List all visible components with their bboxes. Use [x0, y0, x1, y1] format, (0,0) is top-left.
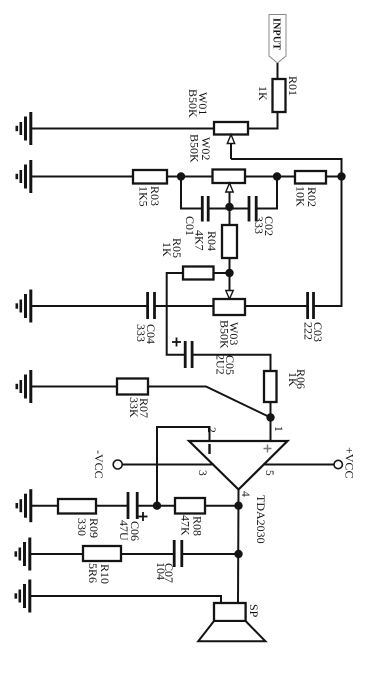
label R09 330 [75, 518, 101, 538]
potentiometer W03 [214, 291, 246, 316]
wire pin2 to feedback node [157, 427, 210, 506]
node dot R06/pin1 [266, 413, 274, 421]
svg-text:10K: 10K [294, 186, 308, 207]
wire W03 top to C03 [245, 305, 308, 307]
wire node to W02 top [245, 176, 277, 178]
plus sign C06 [139, 512, 148, 521]
wire C04 to ground [32, 305, 148, 307]
svg-text:INPUT: INPUT [271, 18, 282, 50]
capacitor C03 [308, 292, 314, 319]
svg-text:1: 1 [272, 426, 284, 432]
wire R07 bottom to ground [32, 386, 117, 388]
svg-text:B50K: B50K [218, 320, 232, 349]
ground (speaker) [16, 580, 30, 613]
INPUT terminal flag [269, 15, 286, 64]
svg-text:222: 222 [302, 322, 316, 340]
svg-text:1K: 1K [256, 86, 270, 101]
wire C05 top to R06 [192, 355, 270, 371]
label R06 1K [286, 369, 308, 389]
wire W02 to R03 [167, 176, 181, 178]
node dot R02/C02/W02 [273, 172, 281, 180]
resistor R01 [273, 79, 286, 112]
svg-text:R01: R01 [286, 76, 300, 96]
svg-text:1K: 1K [160, 242, 174, 257]
wire W01 wiper to top rail [231, 159, 342, 306]
wire flag to R01 [277, 63, 279, 79]
ground (R03) [17, 160, 31, 193]
ground (R09) [17, 489, 31, 522]
svg-text:1K: 1K [286, 372, 300, 387]
svg-text:330: 330 [75, 518, 89, 536]
svg-text:1K5: 1K5 [137, 186, 151, 207]
label C05 2U2 [214, 354, 238, 375]
label R03 1K5 [137, 186, 163, 207]
wire C06 to R09 [96, 505, 128, 507]
label C06 47U [117, 520, 142, 541]
svg-text:3: 3 [196, 470, 208, 476]
plus sign C05 [172, 338, 181, 347]
node dot wiper/R04 [225, 203, 233, 211]
svg-text:47U: 47U [117, 520, 131, 541]
resistor R05 [183, 267, 214, 280]
node dot feedback [153, 502, 161, 510]
svg-text:+VCC: +VCC [343, 447, 357, 478]
label R01 1K [256, 76, 300, 101]
wire R05 from node [214, 272, 230, 274]
node dot R04/R05/W03 [225, 269, 233, 277]
svg-text:SP: SP [247, 604, 261, 618]
wire R01 to W01 top [248, 112, 278, 129]
wire R09 to ground [32, 505, 58, 507]
resistor R04 [222, 225, 237, 258]
wire node to C01 bottom [181, 177, 201, 209]
resistor R06 [264, 371, 277, 402]
svg-text:B50K: B50K [186, 89, 200, 118]
pin number labels [196, 426, 284, 497]
label W01 B50K [186, 89, 210, 118]
label R08 47K [179, 515, 205, 536]
speaker SP [198, 603, 265, 641]
ground (R07) [17, 370, 31, 403]
svg-text:-VCC: -VCC [92, 450, 106, 479]
svg-text:TDA2030: TDA2030 [254, 495, 268, 544]
wire R02 to node [277, 176, 295, 178]
svg-text:333: 333 [134, 324, 148, 342]
svg-text:5R6: 5R6 [86, 563, 100, 583]
wire R04 to node [229, 258, 231, 273]
resistor R08 [175, 498, 205, 514]
label W03 B50K [218, 320, 242, 349]
op-amp U1 TDA2030 triangle [189, 441, 288, 490]
wire R05 bottom to C05 line [167, 273, 185, 355]
label C07 104 [154, 562, 176, 583]
wire W03 bottom to C04 [155, 305, 214, 307]
resistor R10 [83, 546, 121, 561]
label R02 10K [294, 186, 320, 207]
terminal +VCC [334, 460, 342, 468]
svg-text:2U2: 2U2 [214, 354, 228, 375]
wire pin3 to -VCC [122, 464, 214, 466]
label C04 333 [134, 324, 158, 344]
wire R07 top + diagonal to pin1 node [148, 387, 271, 418]
capacitor C05 polarized [185, 341, 192, 368]
svg-text:47K: 47K [179, 515, 193, 536]
output wire pin4 to speaker [237, 490, 240, 604]
capacitor C01 [202, 196, 208, 222]
W03 wiper wire [229, 273, 231, 290]
node dot W02/R03/C01 [177, 172, 185, 180]
wire output node to C07 [182, 553, 239, 555]
potentiometer W01 [214, 122, 248, 159]
resistor R09 [58, 499, 96, 514]
wire C07 to R10 [121, 553, 174, 555]
wire R08 to feedback node [157, 505, 175, 507]
svg-text:B50K: B50K [188, 134, 202, 163]
label R04 4K7 [193, 230, 220, 251]
wire rail to R02 [326, 176, 342, 178]
svg-text:4K7: 4K7 [193, 230, 207, 251]
resistor R03 [133, 170, 167, 184]
wire C02 bottom to wiper node [230, 208, 250, 210]
capacitor C07 [174, 540, 182, 567]
capacitor C02 [249, 196, 256, 222]
svg-text:104: 104 [154, 562, 168, 580]
ground (W01) [17, 112, 31, 145]
svg-text:33K: 33K [127, 397, 141, 418]
label C02 333 [252, 216, 276, 236]
wire W01 bottom to ground [32, 128, 214, 130]
node dot output/R08 [234, 502, 242, 510]
wire node to C02 top [257, 177, 277, 209]
node dot output/C07 [234, 550, 242, 558]
wire R06 to node [270, 402, 272, 441]
terminal -VCC [113, 460, 122, 469]
resistor R02 [295, 171, 326, 184]
ground (R10) [16, 538, 30, 571]
wire node to C06 [138, 505, 157, 507]
label R07 33K [127, 397, 151, 418]
wire output node to R08 [205, 505, 239, 507]
label W02 B50K [188, 134, 214, 163]
wire node to R04 [229, 207, 231, 225]
capacitor C06 polarized [128, 492, 137, 519]
node dot rail/R02 [337, 172, 345, 180]
label C01 [183, 216, 197, 236]
plus sign inside (pin1) [264, 445, 272, 453]
resistor R07 [117, 379, 148, 395]
svg-text:4: 4 [239, 491, 251, 497]
potentiometer W02 [213, 170, 246, 208]
minus sign inside (pin2) [208, 444, 210, 454]
ground (C04) [17, 290, 31, 323]
svg-text:5: 5 [263, 470, 275, 476]
wire W02 bottom to node [181, 176, 213, 178]
wire pin5 to +VCC [263, 464, 334, 466]
wire R10 to ground [31, 553, 83, 555]
svg-text:333: 333 [252, 216, 266, 234]
capacitor C04 [148, 292, 155, 319]
wire R03 to ground [32, 176, 133, 178]
label C03 222 [302, 322, 326, 342]
label R10 5R6 [86, 563, 112, 584]
label R05 1K [160, 238, 184, 258]
wire C01 top to wiper node [208, 208, 229, 210]
wire speaker lower terminal to ground [31, 596, 221, 603]
